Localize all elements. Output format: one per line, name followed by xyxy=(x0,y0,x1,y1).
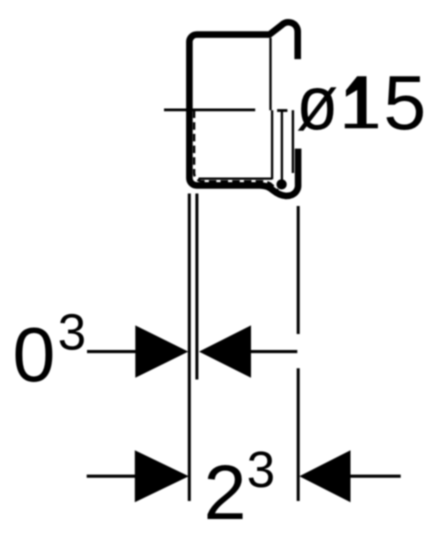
cap outline top: top hook, top edge, left edge xyxy=(189,22,298,196)
tick stem xyxy=(281,111,283,180)
dim1 right arrow xyxy=(199,325,251,377)
inner cavity bottom line xyxy=(199,177,273,179)
inner surface dashed line xyxy=(194,111,278,191)
dim1 left leader xyxy=(87,350,140,353)
svg-text:ø: ø xyxy=(296,61,338,147)
svg-text:0: 0 xyxy=(13,313,56,399)
tick T xyxy=(277,109,287,112)
svg-text:5: 5 xyxy=(383,60,426,146)
extension line A xyxy=(188,194,191,502)
dim2 left arrow xyxy=(135,450,189,502)
inner end-wall line lower xyxy=(271,110,273,179)
inner end-wall line upper xyxy=(269,38,271,110)
extension line C upper xyxy=(297,206,300,334)
label diameter sign xyxy=(296,61,338,147)
o-ring dot xyxy=(276,179,286,189)
dim1 left arrow xyxy=(135,325,188,377)
svg-text:3: 3 xyxy=(247,441,275,498)
svg-text:3: 3 xyxy=(58,304,86,361)
dim2 right arrow xyxy=(299,450,350,502)
extension line B xyxy=(195,194,198,380)
right inner line xyxy=(292,110,294,173)
dim2 right leader xyxy=(350,475,401,478)
label 1 (footed) xyxy=(345,76,378,128)
svg-text:2: 2 xyxy=(204,450,247,536)
dim1 right leader xyxy=(250,350,297,353)
dim2 left leader xyxy=(87,475,138,478)
centerline xyxy=(164,109,255,112)
extension line C lower xyxy=(297,368,300,501)
